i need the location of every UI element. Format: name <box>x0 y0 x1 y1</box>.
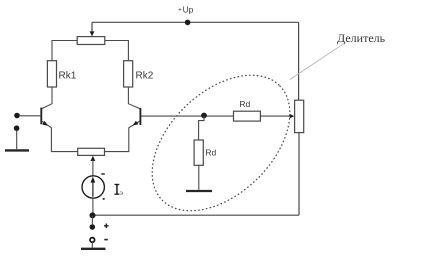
wire right rail upper <box>298 22 300 100</box>
potentiometer Re (emitter) <box>78 148 105 155</box>
label minus terminal <box>104 239 108 241</box>
arrow Q2 emitter <box>133 121 139 126</box>
svg-text:Rk1: Rk1 <box>59 70 77 81</box>
svg-text:Rd: Rd <box>239 99 250 109</box>
svg-text:Rk2: Rk2 <box>136 70 154 81</box>
wire pot wiper to current source <box>92 160 94 176</box>
current source I circle <box>82 176 104 198</box>
node plus terminal <box>90 224 96 230</box>
potentiometer R top (collector balance) <box>77 37 105 45</box>
wire node to plus terminal <box>91 215 93 224</box>
wire pointer line to label <box>290 43 346 80</box>
arrow into load resistor <box>290 114 295 118</box>
label minus at current source top <box>101 173 105 175</box>
wire current source to bottom node <box>92 198 94 212</box>
wire pot right lead to Rk2 <box>105 41 129 61</box>
wire pot left lead to Rk1 <box>52 41 77 61</box>
arrow Q1 emitter <box>42 121 48 126</box>
label I emitter current <box>115 184 120 185</box>
resistor Rd vertical <box>194 140 203 165</box>
wire drop from rail to potentiometer wiper <box>91 22 93 32</box>
node input terminal lower <box>14 125 20 131</box>
resistor Rk2 <box>124 61 133 87</box>
wire bottom rail <box>93 214 300 216</box>
arrow wiper of emitter potentiometer <box>91 156 96 161</box>
wire vertical Rd to ground <box>198 165 200 190</box>
svg-text:+: + <box>178 7 182 14</box>
svg-text:Up: Up <box>183 4 194 14</box>
wire Q2 base to divider node <box>141 115 234 117</box>
label plus terminal <box>104 225 109 227</box>
transistor Q1 emitter <box>42 121 78 152</box>
resistor Rk1 <box>47 61 56 87</box>
svg-text:Rd: Rd <box>205 148 216 158</box>
wire Q1 base lead <box>20 115 41 117</box>
ground left input <box>5 149 29 151</box>
wire Rd to load arrow <box>260 115 290 117</box>
ground bottom <box>81 248 106 250</box>
wire jog from node down to vertical Rd <box>199 116 204 141</box>
wire Rk2 to Q2 collector <box>128 87 140 109</box>
node minus terminal open <box>90 238 95 243</box>
wire Rk1 to Q1 collector <box>42 87 52 109</box>
svg-text:э: э <box>120 188 123 197</box>
wire lower input terminal to ground <box>16 131 18 150</box>
node bottom junction <box>90 212 96 218</box>
arrow current source internal <box>92 182 94 197</box>
ground divider <box>186 190 212 192</box>
transistor Q2 base bar <box>139 108 141 125</box>
wire top supply rail <box>92 21 299 23</box>
svg-text:Делитель: Делитель <box>337 31 386 45</box>
wire minus terminal to ground <box>91 242 93 247</box>
wire Q2 emitter to pot right lead <box>105 121 141 152</box>
node +Up junction dot <box>185 20 191 26</box>
transistor Q1 base bar <box>40 108 42 125</box>
resistor load right <box>295 100 304 132</box>
node divider junction <box>201 113 207 119</box>
label plus dot at current source bottom <box>103 198 105 200</box>
wire right rail lower <box>298 133 300 216</box>
ellipse divider boundary dotted <box>127 49 316 236</box>
arrow wiper of top potentiometer <box>90 31 95 36</box>
resistor Rd horizontal <box>234 111 261 121</box>
node input terminal upper <box>14 113 20 119</box>
